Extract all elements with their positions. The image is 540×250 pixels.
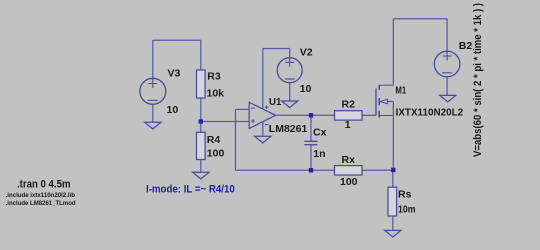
voltage source V2 bbox=[277, 58, 302, 83]
capacitor Cx bbox=[304, 141, 317, 144]
svg-text:V2: V2 bbox=[300, 47, 313, 59]
wire node to Rx left bbox=[311, 169, 335, 171]
wire M1 source down to node bbox=[392, 102, 394, 171]
wire R4 bottom to ground bbox=[200, 160, 202, 173]
behavioral source B2 bbox=[434, 51, 460, 77]
node A junction R3 R4 bbox=[199, 119, 203, 123]
svg-text:V3: V3 bbox=[168, 68, 181, 80]
svg-text:LM8261: LM8261 bbox=[269, 123, 308, 135]
wire Rs top bbox=[392, 170, 394, 187]
svg-text:M1: M1 bbox=[395, 84, 406, 96]
wire node to Cx top plate bbox=[310, 115, 312, 141]
wire R4 top bbox=[200, 122, 202, 133]
wire R3 bottom to node bbox=[200, 98, 202, 122]
svg-text:B2: B2 bbox=[459, 40, 473, 52]
svg-text:R3: R3 bbox=[207, 71, 221, 83]
ground under op-amp U1 bbox=[255, 136, 271, 143]
wire R2 right to M1 gate bbox=[362, 114, 376, 116]
wire feedback vertical bbox=[235, 109, 237, 170]
svg-text:Cx: Cx bbox=[313, 127, 327, 139]
resistor R2 bbox=[335, 111, 363, 120]
wire op-amp V+ to V2 bbox=[263, 48, 290, 50]
wire op-amp output to R2 bbox=[276, 114, 335, 116]
wire node to op-amp plus input bbox=[201, 121, 249, 123]
wire Cx bottom plate to node bbox=[310, 145, 312, 171]
wire Rs bottom to ground bbox=[392, 216, 394, 230]
resistor R4 bbox=[197, 132, 206, 159]
svg-text:U1: U1 bbox=[269, 96, 281, 108]
node B op-amp output junction bbox=[309, 113, 313, 117]
svg-text:100: 100 bbox=[340, 176, 358, 188]
wire B2 bottom to ground bbox=[446, 77, 448, 96]
svg-text:Rx: Rx bbox=[342, 154, 356, 166]
svg-text:.tran 0 4.5m: .tran 0 4.5m bbox=[17, 179, 71, 191]
svg-text:10m: 10m bbox=[398, 203, 416, 215]
wire top M1 to B2 bbox=[393, 18, 447, 20]
op-amp U1 bbox=[249, 102, 275, 128]
resistor R3 bbox=[197, 70, 206, 98]
svg-text:1n: 1n bbox=[313, 148, 325, 160]
wire V3 bottom to ground bbox=[152, 105, 154, 123]
voltage source V3 bbox=[140, 78, 166, 104]
wire op-amp V+ pin bbox=[262, 49, 264, 110]
wire V2 top stem bbox=[289, 49, 291, 58]
wire top V3 to R3 bbox=[153, 39, 201, 41]
wire B2 top stem bbox=[446, 19, 448, 52]
resistor Rs bbox=[388, 187, 397, 216]
svg-text:10: 10 bbox=[300, 83, 312, 95]
svg-text:Rs: Rs bbox=[398, 189, 412, 201]
resistor Rx bbox=[335, 166, 363, 175]
svg-text:10k: 10k bbox=[207, 88, 225, 100]
svg-text:.include ixtx110n20l2.lib: .include ixtx110n20l2.lib bbox=[6, 192, 75, 199]
svg-text:100: 100 bbox=[207, 147, 225, 159]
ground under B2 bbox=[440, 95, 456, 102]
node D M1 source Rx Rs junction bbox=[391, 168, 395, 172]
transistor M1 bbox=[376, 85, 393, 118]
wire V3 top stem bbox=[152, 40, 154, 78]
svg-text:R4: R4 bbox=[207, 134, 221, 146]
ground under V3 bbox=[145, 122, 161, 129]
svg-text:.include LM8261_TLmod: .include LM8261_TLmod bbox=[6, 200, 76, 207]
ground under V2 bbox=[282, 101, 298, 108]
svg-text:V=abs(60 * sin( 2 * pi * time: V=abs(60 * sin( 2 * pi * time * 1k ) ) bbox=[472, 3, 484, 157]
wire feedback bottom horizontal bbox=[236, 169, 312, 171]
wire M1 drain up bbox=[392, 19, 394, 86]
node C Cx bottom junction bbox=[309, 168, 313, 172]
wire R3 top stem bbox=[200, 40, 202, 70]
svg-text:I-mode: IL =~ R4/10: I-mode: IL =~ R4/10 bbox=[146, 183, 235, 195]
svg-text:R2: R2 bbox=[342, 99, 356, 111]
wire op-amp V- pin to ground bbox=[262, 122, 264, 137]
wire V2 bottom to ground bbox=[289, 83, 291, 102]
svg-text:IXTX110N20L2: IXTX110N20L2 bbox=[396, 106, 464, 118]
wire feedback to op-amp minus input bbox=[236, 108, 250, 110]
ground under R4 bbox=[193, 172, 209, 179]
svg-text:1: 1 bbox=[345, 119, 351, 131]
wire Rx right to source node bbox=[362, 169, 394, 171]
ground under Rs bbox=[385, 230, 401, 237]
svg-text:10: 10 bbox=[167, 104, 179, 116]
